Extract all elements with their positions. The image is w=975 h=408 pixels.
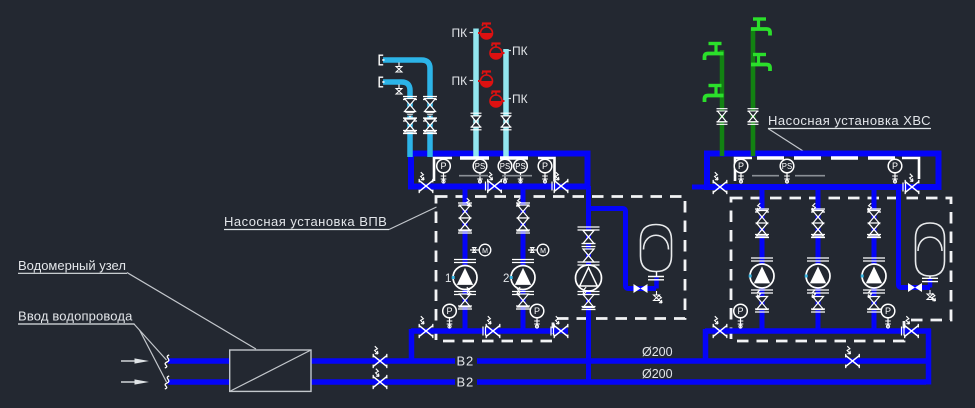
leader: Насосная установка ХВС — [768, 129, 803, 152]
XVC loop rail bracket left — [735, 158, 752, 181]
wire: VPV bottom header — [411, 328, 568, 334]
svg-text:1: 1 — [445, 273, 451, 285]
tap on riser2 mid — [751, 55, 770, 72]
svg-text:ПК: ПК — [512, 44, 528, 58]
XVC pump column 2 fittings — [805, 203, 830, 312]
svg-text:Ввод водопровода: Ввод водопровода — [18, 309, 133, 324]
leader: Насосная установка ВПВ — [389, 207, 437, 230]
svg-text:Ø200: Ø200 — [642, 367, 673, 381]
gray line under PS left — [459, 175, 488, 177]
gauge PS3 on VPV header — [514, 159, 528, 183]
XVC loop rail bracket right — [902, 158, 919, 179]
valve on lower main at x380 — [373, 369, 387, 389]
wire: XVC pump column 3 — [872, 187, 877, 331]
wire: PK riser 1 — [473, 29, 479, 158]
gray line flank right — [795, 175, 825, 177]
fire cabinet PK 3 on riser2 — [490, 44, 505, 60]
wire: lower main B2 segment 1 — [168, 379, 230, 385]
label: B2 lower — [455, 375, 477, 390]
wire: VPV tank stem — [654, 278, 659, 289]
wire: XVC bottom header — [705, 328, 931, 334]
valve on VPV loop bottom right — [552, 172, 568, 193]
svg-text:ПК: ПК — [512, 92, 528, 106]
wire: XVC tank drop — [899, 187, 931, 288]
wire: VPV tank branch — [589, 209, 657, 289]
bracket: feed pipe end lower — [379, 77, 384, 87]
VPV loop rail bracket left — [434, 158, 452, 181]
tap on riser2 top — [751, 19, 770, 36]
leader: Водомерный узел — [127, 273, 256, 350]
valve on XVC bottom header right — [902, 316, 919, 338]
wire: lower main B2 segment 2 — [311, 379, 926, 385]
wire: upper main B2 segment 1 — [168, 358, 230, 364]
XVC pump column 1 fittings — [749, 203, 774, 312]
water meter diagonal — [230, 350, 311, 391]
wire: XVC loop left stub — [692, 185, 708, 190]
check valve on XVC loop bottom right — [903, 174, 919, 194]
VPV loop rail dash 1 — [460, 156, 489, 159]
wire: VPV pump column 3 down to mains — [586, 186, 591, 382]
VPV loop rail dash 2 — [500, 156, 528, 159]
XVC loop rail dashes — [757, 156, 898, 159]
wire: XVC riser 2 (green) — [751, 28, 756, 157]
label: B2 upper — [455, 352, 477, 369]
fire cabinet PK 4 on riser2 — [490, 92, 505, 108]
valve stack on feed riser 1 (x410) — [403, 97, 417, 134]
wire: fire line riser feed lower — [383, 82, 410, 157]
svg-text:ПК: ПК — [452, 74, 468, 88]
valve on XVC tank line — [908, 283, 922, 292]
wire: fire line riser feed upper — [383, 60, 430, 157]
valve stack on feed riser 2 (x430) — [423, 97, 437, 134]
svg-text:ПК: ПК — [452, 26, 468, 40]
water meter box — [230, 350, 311, 391]
dashed box: насосная установка ХВС — [731, 198, 951, 341]
gray line flank left — [752, 175, 779, 177]
leader: Ввод водопровода upper — [134, 324, 167, 360]
wire: XVC top header loop — [707, 154, 939, 188]
gauge P on XVC bottom header right — [881, 304, 895, 328]
wire: VPV top header loop — [411, 154, 588, 187]
inlet arrow upper — [121, 358, 149, 363]
valve on VPV loop bottom mid — [486, 172, 502, 193]
wire: PK riser 2 — [503, 49, 509, 157]
drain under VPV tank — [654, 291, 663, 303]
tap on riser1 mid — [705, 86, 724, 103]
valve on upper main at x380 — [373, 346, 387, 368]
dashed box: насосная установка ВПВ — [436, 197, 685, 342]
gauge PS2 on VPV header — [498, 159, 512, 183]
valve on PK riser 1 — [471, 113, 482, 130]
svg-text:Водомерный узел: Водомерный узел — [18, 258, 126, 273]
gray line under PS right — [503, 175, 533, 177]
wire: XVC header left drop to main — [703, 329, 709, 361]
gauge P on XVC bottom header left — [734, 304, 748, 328]
valve on upper main at x852 — [846, 346, 860, 368]
fire cabinet PK 1 on riser1 — [478, 24, 493, 40]
leader: Ввод водопровода lower — [140, 330, 167, 382]
inlet arrow lower — [121, 379, 149, 384]
valve on PK riser 2 — [501, 113, 512, 130]
valve on VPV bottom header mid — [483, 316, 500, 338]
wire: XVC pump column 1 — [760, 187, 765, 331]
tap on riser1 top — [705, 44, 724, 61]
gauge P2 on VPV header — [538, 159, 552, 183]
svg-text:В2: В2 — [457, 354, 475, 369]
valve on green riser 1 — [717, 109, 728, 125]
gauge P2 on XVC header — [888, 159, 902, 183]
valve on XVC loop bottom left — [713, 172, 727, 194]
fire cabinet PK 2 on riser1 — [478, 72, 493, 88]
wire: XVC pump column 2 — [816, 187, 821, 331]
VPV membrane tank — [641, 225, 672, 280]
gauge P on XVC header — [734, 159, 748, 183]
svg-text:Насосная установка ВПВ: Насосная установка ВПВ — [224, 214, 387, 229]
valve on VPV tank line — [634, 284, 648, 293]
wire: XVC tank stem — [928, 279, 933, 288]
XVC membrane tank — [916, 223, 945, 282]
gauge PS on XVC header — [780, 159, 794, 183]
svg-text:2: 2 — [503, 273, 509, 285]
valve on VPV bottom header left — [419, 316, 433, 338]
valve on green riser 2 — [748, 109, 759, 125]
gauge PS on VPV header — [473, 159, 487, 183]
drain under XVC tank — [927, 290, 936, 301]
drain valve on lower feed — [396, 85, 402, 95]
XVC pump column 3 fittings — [861, 203, 886, 312]
svg-text:В2: В2 — [457, 375, 475, 390]
bracket: feed pipe end upper — [379, 55, 384, 65]
wire: VPV pump column 1 — [463, 186, 468, 331]
wire: upper main B2 segment 2 — [311, 358, 931, 364]
valve on VPV bottom header right — [551, 316, 568, 338]
wire: XVC riser 1 (green) — [720, 50, 725, 156]
valve on XVC bottom header left — [713, 316, 727, 338]
gauge P on VPV header — [437, 159, 451, 183]
wire: VPV pump column 2 — [521, 186, 526, 331]
wire: VPV header drop to main — [409, 329, 415, 361]
break on lower main — [165, 376, 169, 389]
break on upper main — [165, 355, 169, 368]
drain valve on upper feed — [396, 63, 402, 73]
VPV loop rail bracket right — [538, 158, 555, 181]
valve on VPV loop bottom left — [419, 172, 433, 193]
gauge P on VPV bottom header left — [443, 304, 457, 328]
svg-text:Ø200: Ø200 — [642, 345, 673, 359]
svg-text:Насосная установка ХВС: Насосная установка ХВС — [768, 113, 931, 128]
wire: XVC right drop to mains — [926, 329, 932, 385]
gauge P on VPV bottom header right — [530, 304, 544, 328]
